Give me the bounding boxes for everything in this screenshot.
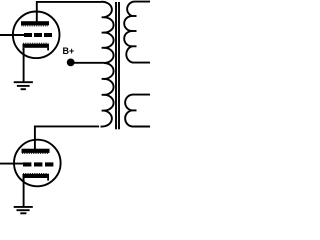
primary cusp ticks [102, 17, 105, 110]
node B+ terminal dot [67, 59, 75, 67]
wire cathode V1 to ground [23, 48, 25, 82]
tube V2 envelope [14, 140, 61, 187]
plate P1 teeth [22, 25, 49, 27]
transformer T1 secondary winding lower [125, 95, 150, 127]
svg-text:B+: B+ [63, 46, 75, 56]
tube V1 envelope [13, 12, 60, 59]
cathode K1 teeth [23, 42, 49, 44]
grid G1 of V1 (dashes) [24, 33, 52, 37]
transformer T1 primary winding [101, 2, 114, 127]
wire cathode V2 to ground [23, 178, 25, 207]
wire B+ to primary center tap [71, 62, 105, 64]
plate P2 teeth [22, 152, 49, 154]
cathode K2 of V2 [23, 174, 50, 178]
wire grid V2 lead [0, 163, 24, 165]
ground GND1 [14, 82, 33, 89]
plate P2 of V2 [22, 149, 50, 153]
cathode K1 of V1 [23, 44, 50, 48]
transformer T1 secondary winding upper [124, 2, 150, 63]
wire grid V1 lead [0, 34, 24, 36]
ground GND2 [14, 207, 33, 213]
secondary lower cusp tick [132, 109, 137, 111]
plate P1 of V1 [21, 21, 49, 25]
transformer T1 core [115, 2, 117, 129]
secondary upper cusp ticks [132, 16, 137, 46]
grid G2 of V2 (dashes) [23, 162, 53, 166]
wire plate V2 to transformer primary bottom [35, 126, 99, 150]
cathode K2 teeth [23, 173, 49, 175]
wire plate V1 to transformer primary top [37, 2, 101, 23]
